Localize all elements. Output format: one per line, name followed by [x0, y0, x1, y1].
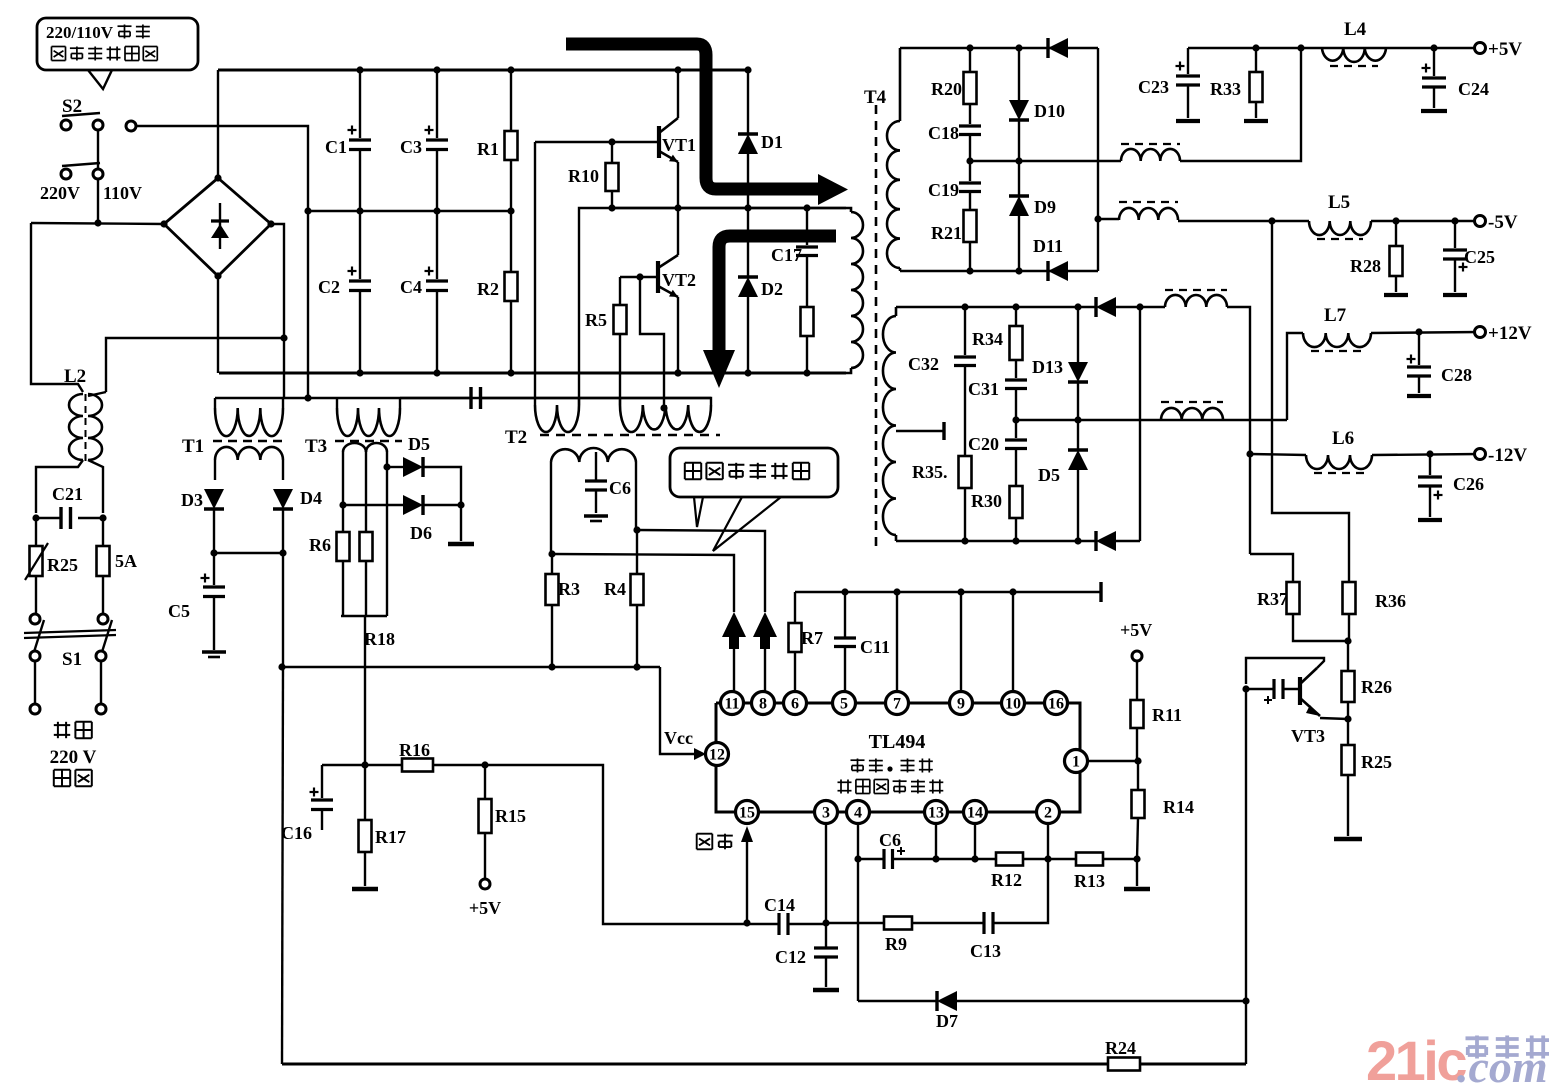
wire dead time rail: [795, 591, 1101, 593]
wire bridge right down: [271, 224, 284, 398]
wire VT3 collector loop: [1246, 658, 1324, 684]
wire +rail top: [218, 69, 748, 72]
svg-text:D3: D3: [181, 490, 203, 510]
transformer T4 secondary 1: [899, 48, 902, 121]
svg-text:C14: C14: [764, 895, 795, 915]
svg-text:VT2: VT2: [662, 270, 696, 290]
svg-text:R36: R36: [1375, 591, 1406, 611]
wire VT2 base to T2 tap: [640, 277, 664, 410]
svg-text:C16: C16: [281, 823, 312, 843]
svg-text:220/110V: 220/110V: [46, 23, 114, 42]
rail end bar: [1099, 582, 1102, 602]
svg-text:T3: T3: [305, 436, 327, 457]
wire drive rail: [612, 207, 846, 209]
ground R17: [352, 887, 378, 892]
wire T2 sec right: [635, 462, 637, 530]
wire bottom rail up to D7 node: [1245, 1001, 1247, 1064]
svg-text:C28: C28: [1441, 365, 1472, 385]
wire bridge bottom to -rail: [217, 276, 219, 373]
transformer T2 winding A: [534, 398, 536, 405]
thick arrow drive signal 1: [566, 44, 820, 189]
IC pin 1: [1065, 750, 1088, 773]
wire VT1 base: [535, 141, 612, 143]
svg-text:R34: R34: [972, 329, 1003, 349]
svg-text:C26: C26: [1453, 474, 1484, 494]
svg-text:C19: C19: [928, 180, 959, 200]
arrow drive to pin 11: [722, 612, 746, 649]
wire AC left to bridge: [31, 223, 164, 224]
capacitor C2: [359, 211, 361, 279]
svg-text:R25: R25: [47, 555, 78, 575]
wire secondary1 right: [1097, 48, 1099, 271]
svg-text:4: 4: [854, 805, 862, 822]
svg-text:+5V: +5V: [469, 898, 501, 918]
svg-text:T1: T1: [182, 436, 204, 457]
ground C6: [584, 514, 608, 518]
wire VT1 collector: [677, 70, 679, 118]
wire R16 node to error line: [485, 765, 747, 924]
svg-text:15: 15: [739, 805, 755, 822]
svg-text:D2: D2: [761, 279, 783, 299]
wire bottom rail: [282, 1063, 1108, 1066]
wire soft start rail: [936, 858, 1137, 860]
wire sec2 mid rail: [1016, 419, 1287, 421]
ground C5: [202, 650, 226, 654]
svg-text:C18: C18: [928, 123, 959, 143]
svg-text:+5V: +5V: [1488, 39, 1522, 60]
transformer T4 core: [875, 105, 878, 550]
wire pin2 down: [1047, 824, 1049, 859]
svg-text:1: 1: [1072, 754, 1080, 771]
wire fuse to S1: [102, 576, 104, 614]
terminal +5V output: [1475, 43, 1486, 54]
svg-text:C20: C20: [968, 434, 999, 454]
wire T3 bottom: [341, 615, 387, 617]
svg-text:11: 11: [724, 696, 739, 713]
svg-text:R15: R15: [495, 806, 526, 826]
choke output 2: [1119, 208, 1178, 220]
terminal +12V output: [1475, 327, 1486, 338]
svg-text:C13: C13: [970, 941, 1001, 961]
capacitor coupling T3 T2: [469, 387, 472, 409]
transformer T2 winding B: [619, 398, 621, 405]
svg-text:C25: C25: [1464, 247, 1495, 267]
svg-text:R12: R12: [991, 870, 1022, 890]
rectifier diode top: [1048, 38, 1068, 58]
svg-text:VT3: VT3: [1291, 726, 1325, 746]
resistor R1: [510, 70, 512, 131]
wire pin14 down: [974, 824, 976, 859]
svg-text:R17: R17: [375, 827, 406, 847]
transformer T2 core: [540, 434, 720, 437]
wire +5V rail: [1188, 47, 1480, 49]
IC TL494 outline: [716, 703, 1080, 812]
svg-text:T4: T4: [864, 87, 887, 108]
svg-text:D5: D5: [408, 434, 430, 454]
wire 110V column: [307, 211, 309, 398]
svg-text:R7: R7: [801, 628, 823, 648]
wire L6 to -12V: [1372, 454, 1480, 455]
wire pin9 up: [960, 592, 962, 692]
svg-text:L2: L2: [64, 366, 86, 387]
svg-text:16: 16: [1048, 696, 1064, 713]
transformer T1 core: [213, 440, 284, 442]
wire pin10 up: [1012, 592, 1014, 692]
svg-text:C2: C2: [318, 277, 340, 297]
svg-text:R1: R1: [477, 139, 499, 159]
svg-text:12: 12: [709, 747, 725, 764]
capacitor C1: [359, 70, 361, 138]
wire pin4 down: [857, 824, 859, 859]
wire secondary2 right: [1139, 307, 1141, 541]
svg-text:+12V: +12V: [1488, 323, 1532, 344]
wire choke2 node: [1098, 218, 1119, 220]
label AC 220V input: [54, 724, 70, 726]
choke output 4: [1161, 408, 1223, 420]
wire VT2 base: [620, 276, 658, 278]
svg-text:D1: D1: [761, 132, 783, 152]
rectifier diode sec2 top: [1096, 297, 1116, 317]
wire -rail bottom: [219, 372, 846, 375]
switch S1: [30, 614, 40, 624]
resistor R2: [510, 211, 512, 272]
IC pin 12: [706, 743, 729, 766]
svg-text:C12: C12: [775, 947, 806, 967]
svg-text:L5: L5: [1328, 192, 1350, 213]
transformer T1 secondary: [215, 447, 283, 460]
wire pin7 up: [896, 592, 898, 692]
svg-text:C31: C31: [968, 379, 999, 399]
callout box switching oscillation signal: [670, 448, 838, 497]
terminal 110V select: [126, 121, 136, 131]
svg-text:8: 8: [759, 696, 767, 713]
svg-text:D11: D11: [1033, 236, 1063, 256]
wire L7 to +12V: [1371, 332, 1480, 333]
wire choke4 to L7: [1287, 333, 1303, 420]
svg-text:R28: R28: [1350, 256, 1381, 276]
svg-text:13: 13: [928, 805, 944, 822]
svg-text:L6: L6: [1332, 428, 1354, 449]
callout pointer 2: [713, 497, 781, 551]
svg-text:R5: R5: [585, 310, 607, 330]
wire secondary1 top: [900, 47, 1098, 49]
svg-text:14: 14: [967, 805, 983, 822]
svg-text:R6: R6: [309, 535, 331, 555]
ground R25 lower: [1334, 837, 1362, 842]
svg-text:2: 2: [1044, 805, 1052, 822]
ground C12: [813, 988, 839, 993]
terminal -5V output: [1475, 216, 1486, 227]
svg-text:R33: R33: [1210, 79, 1241, 99]
wire secondary1 bottom: [900, 270, 1098, 272]
svg-text:T2: T2: [505, 427, 527, 448]
svg-text:3: 3: [822, 805, 830, 822]
svg-text:R21: R21: [931, 223, 962, 243]
rectifier diode sec2 bottom: [1096, 531, 1116, 551]
wire pin8 drive: [637, 530, 765, 612]
secondary 2 center tap: [896, 430, 944, 432]
IC TL494 pins bottom: [736, 801, 759, 824]
svg-text:L7: L7: [1324, 305, 1347, 326]
svg-text:C11: C11: [860, 637, 890, 657]
wire S2 to AC node: [97, 179, 99, 223]
thick arrow drive signal 2: [719, 236, 836, 352]
ground R14 divider: [1136, 859, 1138, 886]
svg-text:D6: D6: [410, 523, 432, 543]
svg-text:10: 10: [1005, 696, 1021, 713]
svg-text:-12V: -12V: [1488, 445, 1527, 466]
wire 110V select to C bank midpoint: [136, 126, 308, 211]
IC TL494 pins top: [721, 692, 744, 715]
svg-text:D7: D7: [936, 1011, 958, 1031]
svg-text:-5V: -5V: [1488, 212, 1518, 233]
svg-text:C6: C6: [879, 830, 901, 850]
svg-text:L4: L4: [1344, 19, 1367, 40]
svg-text:D10: D10: [1034, 101, 1065, 121]
wire VT2 emitter: [677, 297, 679, 373]
ground D5 D6: [460, 505, 462, 541]
wire secondary2 bottom: [896, 540, 1096, 542]
wire VT1 emitter: [677, 162, 679, 208]
svg-text:220 V: 220 V: [50, 747, 97, 768]
wire L2 right bottom to C21: [88, 460, 103, 513]
svg-text:R9: R9: [885, 934, 907, 954]
svg-text:R26: R26: [1361, 677, 1392, 697]
callout box 220/110V input voltage select switch: [37, 18, 198, 70]
svg-text:R30: R30: [971, 491, 1002, 511]
svg-text:C1: C1: [325, 137, 347, 157]
svg-text:R24: R24: [1105, 1038, 1136, 1058]
svg-text:D13: D13: [1032, 357, 1063, 377]
transformer T4 secondary 2: [895, 307, 898, 316]
fuse 5A: [102, 518, 104, 546]
svg-text:C21: C21: [52, 484, 83, 504]
wire R18 column: [364, 616, 366, 765]
svg-text:D4: D4: [300, 488, 322, 508]
wire VT2 collector: [677, 208, 679, 255]
capacitor VT3 base: [1272, 679, 1275, 699]
svg-text:R25: R25: [1361, 752, 1392, 772]
capacitor C21: [36, 517, 61, 519]
transformer T3 core: [335, 440, 402, 442]
capacitor C4: [436, 211, 438, 279]
svg-text:R18: R18: [364, 629, 395, 649]
wire pin4 to D7: [857, 859, 859, 1001]
transformer T3 secondary: [343, 443, 366, 452]
watermark electronics net: [1466, 1036, 1489, 1040]
transformer T2 winding B tap: [660, 404, 667, 411]
wire choke3 to -12V column: [1227, 307, 1250, 554]
wire choke2 to L5: [1178, 220, 1309, 222]
arrow drive to pin 8: [753, 612, 777, 649]
svg-text:.com: .com: [1457, 1041, 1548, 1083]
wire C13 to pin2 node: [993, 859, 1048, 923]
wire R5 to T2: [619, 334, 621, 405]
wire T2 sec left: [550, 462, 552, 554]
svg-text:R10: R10: [568, 166, 599, 186]
wire C bank midpoint left: [308, 210, 511, 212]
svg-text:C6: C6: [609, 478, 631, 498]
wire feedback rail: [282, 666, 660, 668]
svg-text:R37: R37: [1257, 589, 1288, 609]
wire choke1 to +5V rail: [1180, 48, 1301, 161]
svg-text:220V: 220V: [40, 183, 80, 203]
terminal +5V standby: [480, 879, 490, 889]
wire AC to L2 right: [106, 338, 284, 392]
wire error arrow to pin 15: [746, 840, 748, 923]
svg-text:R2: R2: [477, 279, 499, 299]
wire L5 to -5V: [1371, 220, 1480, 222]
label error feedback: [697, 833, 713, 835]
transformer T2 secondary: [551, 448, 636, 462]
svg-text:7: 7: [893, 696, 901, 713]
svg-text:R11: R11: [1152, 705, 1182, 725]
wire D4 node down long: [282, 553, 284, 666]
svg-text:21ic: 21ic: [1366, 1029, 1466, 1083]
svg-text:C32: C32: [908, 354, 939, 374]
svg-text:110V: 110V: [103, 183, 142, 203]
svg-text:S1: S1: [62, 649, 82, 670]
thermistor R25: [35, 518, 37, 546]
wire pin1 to divider: [1087, 760, 1138, 762]
wire -5V feedback column: [1272, 221, 1349, 582]
svg-text:D9: D9: [1034, 197, 1056, 217]
svg-text:5A: 5A: [115, 551, 137, 571]
wire R25 to S1: [35, 576, 37, 614]
choke output 1: [1121, 149, 1180, 161]
svg-text:Vcc: Vcc: [664, 728, 693, 748]
wire pin13 down: [935, 824, 937, 859]
wire L2 left bottom to C21: [36, 460, 83, 513]
wire secondary2 top: [896, 306, 1096, 308]
svg-text:5: 5: [840, 696, 848, 713]
svg-text:9: 9: [957, 696, 965, 713]
wire D3 D4 join: [214, 552, 283, 554]
svg-text:R16: R16: [399, 740, 430, 760]
choke output 3: [1165, 295, 1227, 307]
wire to Vcc pin: [660, 667, 696, 754]
wire pin3 down: [825, 824, 827, 923]
wire T2 coupling top: [400, 397, 471, 399]
svg-text:TL494: TL494: [869, 731, 926, 753]
callout pointer: [88, 70, 112, 89]
wire AC left down to L2: [31, 223, 83, 392]
transformer T1 primary: [214, 398, 216, 408]
svg-text:R13: R13: [1074, 871, 1105, 891]
resistor damping: [806, 256, 808, 308]
svg-text:+5V: +5V: [1120, 620, 1152, 640]
capacitor C3: [436, 70, 438, 138]
svg-text:C3: C3: [400, 137, 422, 157]
svg-text:C24: C24: [1458, 79, 1489, 99]
svg-text:R4: R4: [604, 579, 626, 599]
svg-text:C23: C23: [1138, 77, 1169, 97]
terminal -12V output: [1475, 449, 1486, 460]
svg-text:VT1: VT1: [662, 135, 696, 155]
transformer T3 primary: [336, 398, 338, 408]
svg-text:R35.: R35.: [912, 462, 948, 482]
wire T1 T3 top: [215, 397, 711, 399]
wire VT1 base to T2: [534, 142, 536, 398]
wire bridge top to +rail: [217, 70, 219, 178]
svg-text:R20: R20: [931, 79, 962, 99]
svg-text:C4: C4: [400, 277, 422, 297]
bridge rectifier: [164, 178, 271, 276]
svg-text:C5: C5: [168, 601, 190, 621]
inductor L2 common mode choke: [69, 394, 83, 460]
wire pin11 drive: [552, 554, 734, 612]
wire C bank midpoint right: [579, 208, 846, 405]
switch S2: [61, 120, 71, 130]
callout pointer 1: [694, 497, 703, 527]
svg-text:6: 6: [791, 696, 799, 713]
capacitor C5: [213, 553, 215, 585]
svg-text:R3: R3: [558, 579, 580, 599]
svg-text:D5: D5: [1038, 465, 1060, 485]
transformer T4 primary: [851, 212, 863, 368]
wire VT3 base node down: [1245, 689, 1247, 1001]
svg-text:R14: R14: [1163, 797, 1194, 817]
wire center tap rail: [970, 160, 1121, 162]
